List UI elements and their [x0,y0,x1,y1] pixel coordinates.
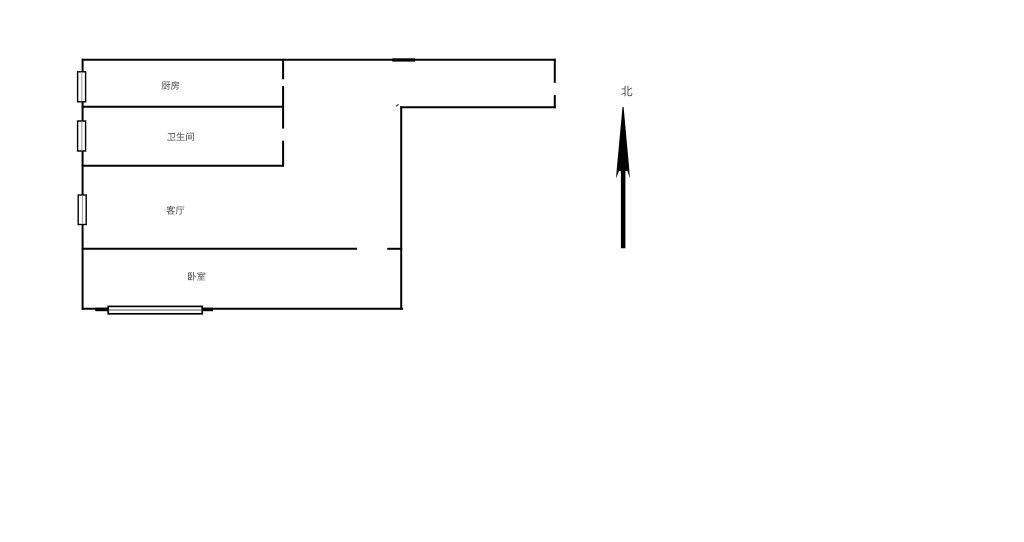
window W2 on left wall (bathroom) [78,121,86,151]
wall: kitchen bottom [82,106,284,108]
north arrow (head with barbs + shaft) [616,107,630,248]
wall: left exterior [82,59,84,310]
wall: top exterior [82,59,556,61]
wall: right exterior, below gap [554,95,556,108]
window W1 on left wall (kitchen) [78,72,86,102]
wall jamb left of bedroom window [95,308,108,312]
wall dashed: partition dash 3 [282,141,284,167]
wall dashed: kitchen/bathroom right partition, dash 1 [282,59,284,79]
wall: living room bottom, right of door [387,248,402,250]
window W4 on bedroom bottom wall [108,306,202,313]
wall: bedroom bottom [82,308,404,310]
wall: living room bottom, left of door [82,248,358,250]
room label 北 (north) [621,86,632,97]
room label 卧室 (bedroom) [188,272,205,281]
wall: right exterior, above gap [554,59,556,83]
wall: interior vertical [400,106,402,309]
wall jamb right of bedroom window [202,308,213,312]
window W3 on left wall (living room) [78,195,86,225]
room label 厨房 (kitchen) [162,81,180,90]
wall: upper-right horizontal [400,106,556,108]
room label 客厅 (living) [166,206,184,215]
tick at interior corner [396,104,399,106]
room label 卫生间 (bathroom) [167,132,194,141]
wall: bathroom bottom [82,165,284,167]
wall dashed: partition dash 2 [282,86,284,129]
wall: thick lintel segment on top wall [392,58,415,61]
